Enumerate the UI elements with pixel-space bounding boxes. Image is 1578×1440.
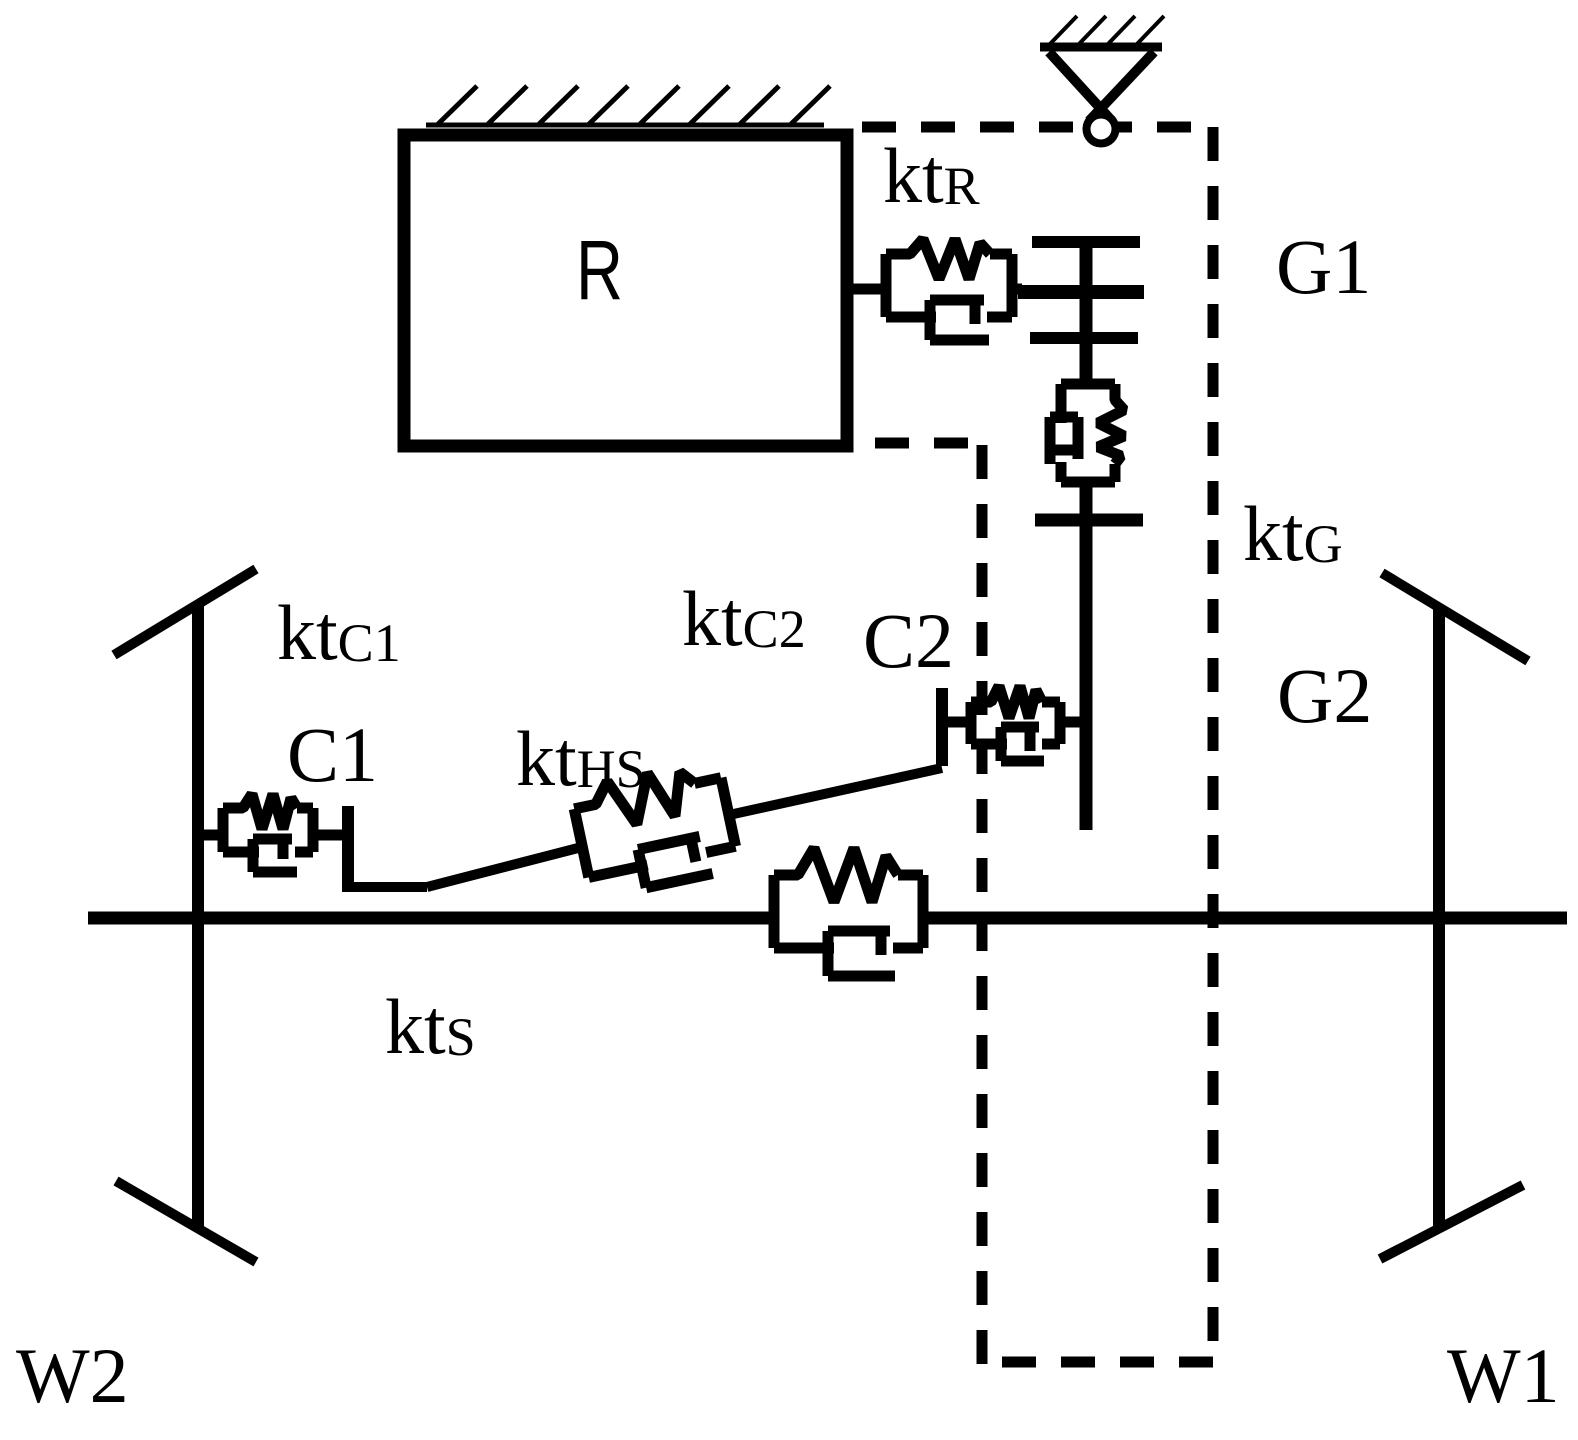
pinned support ground hatching — [1050, 16, 1164, 44]
axle left segment — [88, 912, 774, 925]
wire C2 tick to combo — [942, 717, 971, 728]
dashed boundary G1 top — [862, 122, 1213, 133]
spring-damper ktR — [886, 239, 1012, 340]
wire ktC2 combo to shaft — [1060, 717, 1086, 728]
hatched wall above mass R — [426, 86, 830, 126]
gear G1 bottom bar — [1030, 332, 1138, 344]
svg-text:ktR: ktR — [883, 132, 980, 219]
svg-text:ktG: ktG — [1243, 490, 1343, 577]
pinned support legs — [1049, 52, 1154, 121]
wire C1 combo to tick — [313, 830, 348, 841]
vertical spring-damper on gear shaft — [1050, 384, 1124, 482]
wire R to ktR — [847, 284, 886, 295]
svg-text:G2: G2 — [1277, 652, 1372, 739]
wire C1 tick to halfshaft — [342, 882, 427, 892]
wheel W1 top tick — [1382, 573, 1528, 661]
gear G1 top bar — [1032, 236, 1140, 248]
pinned support bar — [1040, 43, 1162, 52]
wheel W1 shaft — [1433, 607, 1445, 1227]
dashed boundary G1 right — [1208, 127, 1219, 1362]
svg-text:C1: C1 — [287, 711, 378, 798]
wire W2 shaft to C1 — [198, 830, 223, 841]
gear G2 bar — [1035, 514, 1143, 527]
svg-text:R: R — [576, 223, 623, 317]
gear G1 middle bar — [1018, 285, 1144, 299]
wheel W2 shaft — [192, 604, 204, 1228]
spring-damper ktC1 — [223, 794, 313, 872]
halfshaft diagonal right segment — [729, 768, 942, 815]
axle right segment — [923, 912, 1567, 925]
wheel W2 top tick — [114, 569, 256, 655]
svg-text:ktC1: ktC1 — [277, 589, 401, 676]
spring-damper ktHS — [570, 758, 740, 899]
wheel W2 bottom tick — [116, 1181, 256, 1262]
wheel W1 bottom tick — [1380, 1185, 1523, 1259]
C1 right tick bar — [342, 806, 354, 892]
shaft below vertical combo — [1080, 482, 1093, 527]
svg-text:ktC2: ktC2 — [682, 575, 806, 662]
spring-damper ktC2 — [971, 686, 1060, 761]
dashed boundary G2 left — [977, 443, 988, 1364]
dashed boundary bottom — [980, 1357, 1213, 1368]
svg-text:C2: C2 — [863, 597, 954, 684]
pivot circle — [1087, 115, 1116, 144]
wire ktR to gear G1 — [1012, 284, 1022, 295]
halfshaft diagonal left segment — [427, 847, 582, 887]
mass block R — [404, 135, 847, 446]
long vertical shaft to C2 — [1080, 514, 1093, 830]
svg-text:ktS: ktS — [385, 983, 476, 1070]
dashed boundary G2 top — [875, 438, 984, 449]
svg-text:ktHS: ktHS — [516, 715, 646, 802]
gear G1 shaft — [1080, 242, 1093, 384]
spring-damper ktS — [774, 848, 923, 976]
svg-text:W1: W1 — [1447, 1332, 1560, 1419]
C2 left tick bar — [936, 688, 948, 766]
svg-text:W2: W2 — [16, 1332, 129, 1419]
svg-text:G1: G1 — [1276, 223, 1371, 310]
